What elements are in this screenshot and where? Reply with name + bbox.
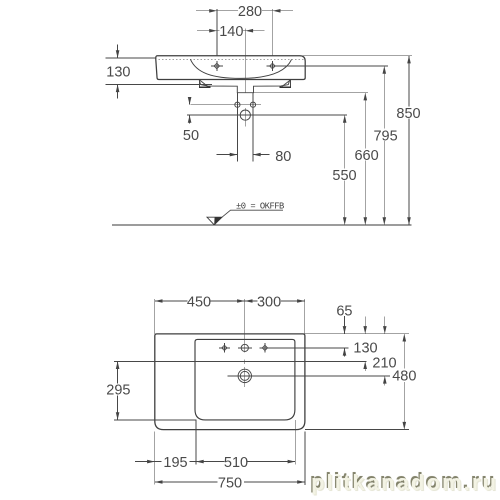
arrows 550 <box>343 115 347 123</box>
arrows 295 <box>116 361 120 369</box>
arrows 480 <box>403 334 407 342</box>
svg-text:140: 140 <box>219 24 243 40</box>
extension lines for 80 dim <box>236 93 238 162</box>
plan bowl bottom left extension <box>114 419 196 421</box>
svg-text:65: 65 <box>336 304 352 320</box>
arrows 850 <box>407 56 411 64</box>
dimension 450 / 300 <box>155 299 305 334</box>
dimension 140 <box>197 30 265 32</box>
front right tap hole cross <box>270 61 276 71</box>
dimension 750 <box>155 432 305 485</box>
svg-text:130: 130 <box>106 64 130 80</box>
svg-text:80: 80 <box>275 149 291 165</box>
drain circle front <box>240 110 250 120</box>
plan inner rim outline <box>195 339 295 420</box>
front vertical centerline <box>244 29 246 93</box>
svg-text:750: 750 <box>218 476 242 492</box>
plan top edge extension to right <box>305 333 409 335</box>
right mounting bracket <box>279 80 291 88</box>
extension line 850 from basin top <box>303 55 413 57</box>
dimension line 850 <box>408 56 410 225</box>
svg-text:550: 550 <box>332 168 356 184</box>
plan drain vertical centerline <box>244 367 246 387</box>
arrows 140 <box>209 29 217 33</box>
plan drain outer circle <box>238 369 251 382</box>
dimension line 550 <box>344 115 346 225</box>
arrows 65 <box>343 326 347 334</box>
dimension line 660 <box>364 93 366 225</box>
arrows 750 <box>155 480 163 484</box>
dimension 130 front <box>105 45 212 99</box>
left fixing bolt circle <box>235 102 240 107</box>
svg-text:660: 660 <box>354 148 378 164</box>
front rim dotted line <box>159 58 305 60</box>
dimension 480 <box>403 334 405 430</box>
right fixing bolt circle <box>250 102 255 107</box>
tap hole line extension for 65 dim <box>270 347 348 349</box>
svg-text:510: 510 <box>224 455 248 471</box>
fixing bolt holes line <box>191 104 261 106</box>
dimension texts <box>106 4 420 492</box>
plan vertical centerline <box>244 299 246 353</box>
watermark plitkanadom.ru <box>311 470 498 496</box>
plan left tap hole cross <box>219 343 230 353</box>
arrows 195 510 <box>147 460 155 464</box>
arrows 130 plan <box>363 326 367 334</box>
svg-text:795: 795 <box>373 128 397 144</box>
arrows 210 <box>383 326 387 334</box>
arrows 130 front <box>116 50 120 58</box>
datum leader line <box>222 210 283 217</box>
svg-text:850: 850 <box>396 106 420 122</box>
plan bottom edge extension to right <box>305 429 409 431</box>
arrows 450 300 <box>155 299 163 303</box>
drain centerline / 550 extension <box>187 114 347 116</box>
dimension 65 <box>344 316 346 356</box>
svg-text:130: 130 <box>353 340 377 356</box>
svg-text:50: 50 <box>183 128 199 144</box>
svg-text:300: 300 <box>257 294 281 310</box>
arrows 795 <box>383 66 387 74</box>
floor line <box>112 224 412 226</box>
plan middle tap hole circle <box>238 344 252 351</box>
plan ledge line and 295 top extension <box>114 360 366 362</box>
plan right tap hole cross <box>259 343 270 353</box>
dimension 130 plan <box>364 316 366 371</box>
arrows 50 <box>188 97 192 105</box>
svg-text:480: 480 <box>392 369 416 385</box>
svg-text:195: 195 <box>163 455 187 471</box>
washbasin plan outer outline <box>155 334 305 430</box>
washbasin front view outline <box>156 56 305 80</box>
datum symbol triangle <box>207 217 222 225</box>
dimension 210 <box>384 316 386 385</box>
arrowheads <box>116 9 411 484</box>
left mounting bracket <box>199 80 211 88</box>
arrows 280 <box>209 9 217 13</box>
extension line 660 from drain housing <box>254 92 369 94</box>
dimension line 795 <box>383 66 385 225</box>
svg-text:295: 295 <box>106 383 130 399</box>
dimension 195 / 510 <box>135 420 295 485</box>
dimension 50 <box>189 97 191 124</box>
dimension 295 <box>117 361 119 420</box>
svg-text:±0 = OKFFB: ±0 = OKFFB <box>236 202 284 212</box>
plan drain horizontal centerline / 210 extension <box>227 375 390 377</box>
arrows 660 <box>364 93 368 101</box>
svg-text:450: 450 <box>187 294 211 310</box>
front bowl curve <box>191 60 292 79</box>
apron and drain housing under basin <box>199 80 290 93</box>
dimension 80 <box>216 154 269 156</box>
arrows 80 <box>230 153 238 157</box>
dimension 280 <box>196 9 293 56</box>
svg-text:280: 280 <box>238 4 262 20</box>
plan drain inner circle <box>240 371 249 380</box>
extension line 795 from right tap hole <box>266 65 388 67</box>
front left tap hole cross <box>211 61 223 71</box>
